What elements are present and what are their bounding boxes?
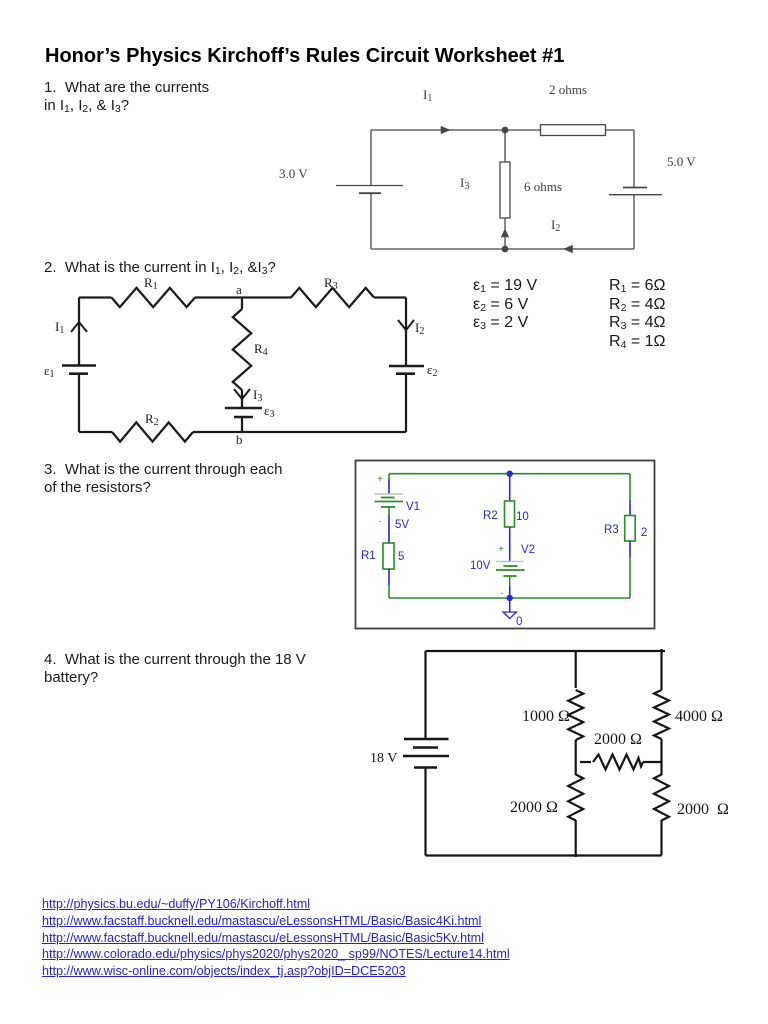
resistor R1 body: [383, 543, 394, 569]
svg-text:R2: R2: [145, 411, 159, 428]
label epsilon1: [44, 363, 54, 380]
wire R3 to top-right corner: [374, 296, 406, 298]
label R2 value 10: [516, 511, 529, 523]
battery V1 plate short2: [381, 506, 395, 508]
label 2000 ohm bottom-right: [677, 801, 729, 818]
resistor 2 ohms body: [541, 125, 606, 136]
node bottom junction dot: [502, 246, 509, 253]
minus dot V1: [379, 514, 382, 525]
label I2: [415, 320, 424, 337]
battery e1 short plate: [69, 372, 88, 375]
svg-text:4000 Ω: 4000 Ω: [675, 708, 723, 725]
svg-text:ε1: ε1: [44, 363, 54, 380]
wire R2 to node b: [193, 431, 242, 433]
label node 0: [516, 616, 522, 628]
svg-text:5: 5: [398, 551, 404, 563]
svg-text:I3: I3: [253, 387, 262, 404]
svg-text:b: b: [236, 432, 243, 447]
svg-text:1000 Ω: 1000 Ω: [522, 708, 570, 725]
svg-text:+: +: [377, 474, 383, 485]
label R4: [254, 341, 268, 358]
label R1: [144, 275, 158, 292]
arrow I2 down: [398, 320, 414, 330]
battery V1 plate long: [375, 501, 404, 503]
svg-text:V2: V2: [521, 544, 535, 556]
title: [45, 45, 564, 68]
pin V1 top blue: [388, 479, 390, 494]
battery V1 bottom green stub: [388, 507, 390, 515]
wire right side lower: [633, 195, 635, 249]
svg-text:10V: 10V: [470, 560, 491, 572]
label I1: [423, 87, 432, 104]
battery 5.0V long plate: [609, 194, 662, 196]
battery e1 long plate: [62, 364, 96, 367]
label I3: [460, 175, 469, 192]
label 2000 ohm middle: [594, 731, 642, 748]
battery 18V plate short2: [414, 766, 437, 768]
arrow I1 up: [71, 322, 87, 332]
label 3.0 V: [279, 166, 308, 181]
wire right branch bottom: [660, 820, 662, 856]
resistor R4 zigzag: [233, 309, 251, 390]
arrow I3 up direction: [501, 229, 509, 237]
svg-text:.: .: [379, 514, 382, 525]
resistor 2000 ohm right zigzag: [654, 775, 669, 821]
battery 3.0V long plate: [336, 185, 403, 187]
svg-text:2000 Ω: 2000 Ω: [677, 801, 729, 818]
wire node b to bottom-right: [242, 431, 406, 433]
svg-text:2: 2: [641, 527, 647, 539]
schematic outer frame: [356, 461, 655, 629]
wire top: [426, 650, 666, 652]
label 10V: [470, 560, 491, 572]
wire node a to R3: [242, 296, 291, 298]
label 5.0 V: [667, 154, 696, 169]
label 2000 ohm bottom-left: [510, 799, 558, 816]
svg-text:R2: R2: [483, 510, 498, 522]
label V2: [521, 544, 535, 556]
svg-text:3.0 V: 3.0 V: [279, 166, 308, 181]
battery 3.0V short plate: [359, 192, 381, 194]
label 2 ohms: [549, 82, 587, 97]
label R2: [145, 411, 159, 428]
svg-text:0: 0: [516, 616, 522, 628]
label I3: [253, 387, 262, 404]
reference links: [42, 896, 510, 980]
svg-text:5V: 5V: [395, 519, 409, 531]
ground wire blue: [509, 598, 511, 612]
battery e3 long plate: [225, 407, 262, 410]
battery e3 short plate: [234, 416, 253, 419]
arrow I3 down: [234, 389, 250, 399]
battery 5.0V short plate: [623, 187, 647, 189]
wire V2 to bottom node blue: [509, 586, 511, 598]
svg-text:I2: I2: [551, 217, 560, 234]
resistor R2 body: [505, 501, 515, 527]
wire R4 to battery e3: [241, 390, 243, 408]
battery V2 plate pale: [496, 561, 524, 563]
battery V2 plate long: [496, 569, 525, 571]
resistor R3 zigzag: [291, 288, 374, 307]
wire left side upper: [370, 130, 372, 186]
label I1: [55, 319, 64, 336]
battery 18V plate long2: [403, 755, 449, 757]
svg-text:ε3: ε3: [264, 403, 274, 420]
resistor 2000 ohm left zigzag: [568, 775, 583, 821]
svg-text:R1: R1: [144, 277, 158, 292]
wire right side upper: [405, 298, 407, 367]
svg-text:ε2: ε2: [427, 362, 437, 379]
ground symbol: [503, 612, 517, 619]
wire left side lower: [370, 193, 372, 249]
wire bottom green: [389, 597, 630, 599]
node dot bottom: [507, 595, 513, 601]
wire R1 to node a: [195, 296, 242, 298]
resistor 1000 ohm zigzag: [568, 690, 583, 740]
wire left bottom green: [388, 585, 390, 598]
battery 18V plate short1: [413, 746, 438, 748]
svg-text:I1: I1: [423, 87, 432, 104]
pin R3 top blue: [629, 500, 631, 516]
battery 18V plate long1: [404, 738, 449, 740]
svg-text:I3: I3: [460, 175, 469, 192]
node dot top: [507, 471, 513, 477]
label epsilon3: [264, 403, 274, 420]
svg-text:I2: I2: [415, 320, 424, 337]
wire right bottom green: [629, 557, 631, 598]
arrow I1 direction: [441, 126, 450, 134]
resistor R2 zigzag: [112, 422, 193, 441]
svg-text:2 ohms: 2 ohms: [549, 82, 587, 97]
question 1 text: [44, 79, 209, 114]
wire right top green: [629, 474, 631, 500]
wire middle branch upper: [504, 130, 506, 162]
wire left upper: [424, 651, 426, 739]
bridge resistor right stub: [643, 761, 662, 763]
label R3 value 2: [641, 527, 647, 539]
wire left top green stub: [388, 474, 390, 479]
wire V1 to R1 blue: [388, 515, 390, 543]
label R1: [361, 550, 376, 562]
resistor R3 body: [625, 516, 636, 542]
label 4000 ohm: [675, 708, 723, 725]
wire top-left to R1: [79, 296, 112, 298]
plus sign V1: [377, 474, 383, 485]
svg-text:R1: R1: [361, 550, 376, 562]
wire resistor to top-right corner: [606, 129, 635, 131]
svg-text:I1: I1: [55, 319, 64, 336]
question 2 text: [44, 259, 276, 276]
label R3: [324, 275, 338, 292]
svg-text:.: .: [501, 586, 504, 597]
pin R1 bottom blue: [388, 569, 390, 585]
svg-text:V1: V1: [406, 501, 420, 513]
wire left lower: [424, 768, 426, 856]
svg-text:R3: R3: [604, 524, 619, 536]
wire middle branch top: [575, 651, 577, 688]
battery e2 short plate: [396, 372, 415, 375]
wire middle branch lower: [504, 218, 506, 249]
label R1 value 5: [398, 551, 404, 563]
wire left side lower: [78, 374, 80, 432]
wire left side upper: [78, 298, 80, 366]
battery V2 bottom green stub: [509, 576, 511, 586]
resistor R1 zigzag: [112, 288, 196, 307]
label V1: [406, 501, 420, 513]
wire right branch mid: [660, 739, 662, 775]
arrow I2 direction: [564, 245, 573, 253]
wire R2 to V2 blue: [509, 527, 511, 561]
battery V2 plate short1: [504, 565, 518, 567]
bridge resistor 2000 ohm zigzag: [593, 755, 643, 770]
battery V1 plate pale: [375, 493, 404, 495]
resistor 6 ohms body: [500, 162, 510, 218]
minus dot V2: [501, 586, 504, 597]
resistor 4000 ohm zigzag: [654, 690, 669, 739]
label 18 V: [370, 751, 397, 766]
node a label: [236, 282, 242, 297]
svg-text:10: 10: [516, 511, 529, 523]
question 3 text: [44, 461, 282, 496]
wire top-left segment: [371, 129, 541, 131]
battery V1 plate short1: [381, 497, 395, 499]
wire bottom right segment: [505, 248, 634, 250]
wire right branch top: [660, 649, 662, 690]
plus sign V2: [498, 544, 504, 555]
emf values list: [473, 277, 537, 333]
question 4 text: [44, 651, 306, 686]
label R3: [604, 524, 619, 536]
node b label: [236, 432, 243, 447]
battery V2 plate short2: [504, 575, 517, 577]
wire bottom: [426, 854, 662, 856]
wire middle branch stub: [241, 298, 243, 310]
label 5V: [395, 519, 409, 531]
wire right side lower: [405, 374, 407, 432]
svg-text:a: a: [236, 282, 242, 297]
svg-text:2000 Ω: 2000 Ω: [594, 731, 642, 748]
bridge resistor left stub: [580, 761, 591, 763]
svg-text:+: +: [498, 544, 504, 555]
wire right side upper: [633, 130, 635, 188]
battery e2 long plate: [389, 365, 424, 368]
label R2: [483, 510, 498, 522]
wire middle branch bottom: [575, 820, 577, 857]
svg-text:2000 Ω: 2000 Ω: [510, 799, 558, 816]
svg-text:18 V: 18 V: [370, 751, 397, 766]
resistor values list: [609, 277, 666, 351]
wire top green: [389, 473, 630, 475]
wire bottom-left to R2: [79, 431, 112, 433]
svg-text:R4: R4: [254, 341, 268, 358]
wire bottom left segment: [371, 248, 505, 250]
label 1000 ohm: [522, 708, 570, 725]
wire middle branch mid: [575, 740, 577, 775]
pin R3 bottom blue: [629, 541, 631, 557]
label epsilon2: [427, 362, 437, 379]
svg-text:5.0 V: 5.0 V: [667, 154, 696, 169]
pin R2 top blue: [509, 474, 511, 501]
wire e3 to node b: [241, 417, 243, 432]
node top junction dot: [502, 127, 509, 134]
label 6 ohms: [524, 179, 562, 194]
svg-text:6 ohms: 6 ohms: [524, 179, 562, 194]
label I2: [551, 217, 560, 234]
